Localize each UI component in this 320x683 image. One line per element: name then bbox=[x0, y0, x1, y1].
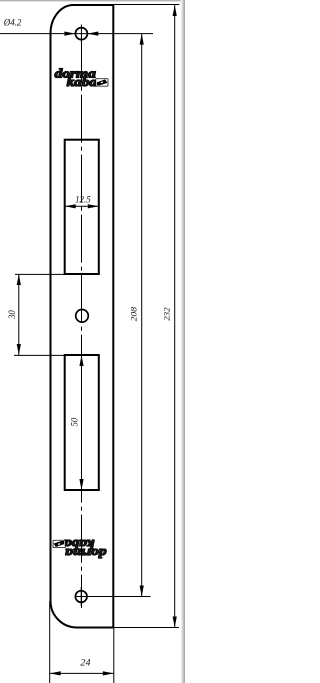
svg-text:30: 30 bbox=[7, 310, 17, 320]
dimension 12.5 bbox=[65, 194, 99, 208]
svg-text:208: 208 bbox=[129, 307, 138, 322]
centerline bbox=[81, 24, 83, 609]
extension line bottom hole right bbox=[76, 596, 151, 598]
extension line top edge right bbox=[113, 4, 179, 6]
middle hole bbox=[76, 310, 89, 323]
dimension 30 extension lines bbox=[14, 274, 65, 355]
svg-text:12.5: 12.5 bbox=[75, 194, 91, 204]
bottom hole bbox=[75, 587, 87, 606]
svg-text:24: 24 bbox=[80, 657, 91, 667]
top gray border bbox=[0, 0, 185, 2]
svg-text:50: 50 bbox=[69, 417, 79, 426]
svg-text:Ø4.2: Ø4.2 bbox=[3, 17, 22, 27]
dimension 24 bbox=[50, 657, 114, 675]
top hole bbox=[72, 25, 91, 44]
logo dormakaba bottom (rotated 180) bbox=[53, 537, 106, 561]
dimension Ø4.2 leader line bbox=[0, 31, 153, 35]
dimension 232 bbox=[163, 5, 177, 628]
logo dormakaba top bbox=[55, 65, 108, 89]
lower slot bbox=[65, 355, 99, 490]
dimension 30 bbox=[7, 274, 21, 355]
svg-text:232: 232 bbox=[163, 307, 172, 320]
extension line bottom edge right bbox=[113, 627, 179, 629]
right gray border bbox=[181, 0, 185, 683]
dimension 208 bbox=[129, 34, 143, 597]
plate outline bbox=[51, 5, 114, 628]
dimension 50 bbox=[69, 355, 83, 490]
upper slot bbox=[65, 140, 99, 274]
dimension 24 extension lines bbox=[50, 601, 114, 683]
